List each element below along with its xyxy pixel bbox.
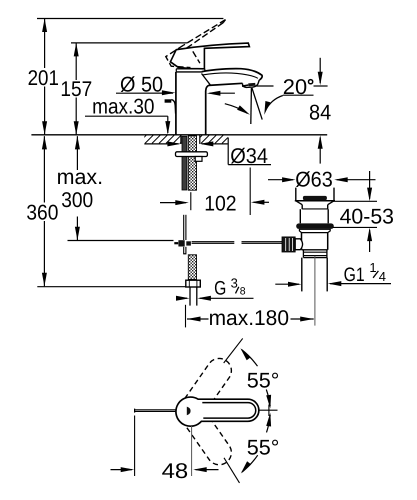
dimension max.180 line and arrows — [187, 318, 209, 320]
svg-text:8: 8 — [240, 285, 246, 297]
label G1 1/4 with underline — [330, 283, 391, 285]
water stream 20 degree slanted line — [252, 88, 262, 120]
water stream vertical line — [250, 88, 253, 124]
drain O-ring seal dark band — [296, 223, 334, 229]
svg-text:max.180: max.180 — [209, 306, 290, 330]
top view lever rotated up 55 dashed — [180, 354, 237, 420]
svg-text:Ø34: Ø34 — [230, 144, 268, 168]
mounting nut under deck — [176, 152, 208, 157]
knob connector piece — [295, 239, 302, 250]
deck hatching — [138, 135, 237, 143]
countertop deck bottom line with diameter 34 arrows — [144, 143, 178, 145]
dimension 102 arrows — [160, 202, 186, 204]
svg-text:157: 157 — [60, 77, 92, 101]
drain upper body — [299, 209, 301, 223]
dimension 157 vertical line — [75, 43, 77, 80]
extension line at spout outlet for 84 — [256, 85, 274, 87]
svg-text:48: 48 — [162, 459, 189, 483]
spout inner contour line — [203, 73, 258, 78]
cartridge ring under lever — [176, 68, 205, 70]
dimension 360 vertical line — [43, 136, 45, 202]
svg-text:G: G — [214, 277, 226, 299]
dimension arrows for diameter 50 — [116, 92, 173, 94]
pop-up rod knurled knob — [282, 237, 295, 252]
supply pipe dark tube — [182, 136, 187, 190]
spout top edge — [202, 69, 262, 80]
drain neck — [301, 205, 303, 210]
svg-text:1: 1 — [369, 260, 376, 275]
drain coupling ring — [302, 250, 304, 258]
55 degree axis line upper — [224, 338, 243, 363]
G 1 1/4 thread arrows — [275, 283, 299, 285]
svg-text:84: 84 — [309, 100, 331, 124]
threaded shank braided section upper — [188, 136, 196, 190]
dimension 102 extension lines — [190, 192, 192, 210]
upper 55 degree arc with arrows — [242, 350, 258, 367]
svg-text:max.: max. — [57, 165, 103, 189]
svg-text:55°: 55° — [247, 435, 280, 459]
G 3/8 connection nut — [186, 280, 201, 287]
top view lever outline — [176, 397, 259, 426]
pop-up rod clamp block — [178, 240, 184, 246]
shank hole edges in deck — [180, 135, 182, 144]
svg-text:55°: 55° — [247, 368, 280, 392]
lever handle raised dashed — [166, 20, 226, 68]
svg-text:Ø63: Ø63 — [295, 167, 333, 191]
drain centerline — [314, 256, 316, 326]
drain main body — [301, 233, 303, 250]
faucet body and spout outline — [175, 72, 177, 135]
svg-text:max.30: max.30 — [92, 94, 155, 118]
svg-text:4: 4 — [379, 269, 386, 284]
top view lever inner contour — [202, 403, 255, 419]
dimension 40-53 extension lines — [333, 200, 377, 202]
horizontal axis line right of lever — [259, 409, 278, 411]
extension line for 201 (top of raised lever) — [37, 18, 223, 20]
drain flange sides and extension lines for diameter 63 — [295, 188, 297, 201]
braided hose lower section — [188, 255, 196, 280]
extension line left for max.180 — [185, 305, 187, 328]
drain tailpipe G1 1/4 — [301, 258, 303, 292]
dimension 48 arrows — [111, 469, 133, 471]
svg-text:201: 201 — [28, 66, 59, 90]
55 degree axis line lower — [224, 458, 240, 483]
dimension 84 vertical line with arrows — [319, 58, 321, 83]
drain collar below seal — [299, 229, 330, 232]
20 degree right arc arrow — [266, 96, 283, 111]
dimension 40-53 arrows — [369, 171, 371, 199]
label diameter 34 with leader — [227, 138, 229, 165]
20 degree left arc arrow — [225, 104, 247, 114]
extension line bottom of 360 — [37, 286, 186, 288]
svg-text:360: 360 — [26, 200, 58, 224]
svg-text:3: 3 — [231, 275, 238, 290]
countertop deck top line — [31, 134, 327, 136]
drain flange bottom line — [295, 200, 335, 202]
pop-up rod vertical — [183, 215, 185, 240]
top view cartridge dark mark — [187, 407, 191, 416]
lever handle solid — [170, 43, 249, 69]
label G 3/8 with underline — [200, 297, 254, 299]
spout-body crease line — [202, 74, 211, 86]
svg-text:G1: G1 — [344, 264, 365, 286]
G 3/8 thread arrows — [177, 297, 188, 299]
aerator dark outlet — [242, 85, 248, 86]
extension line for 157 (top of lever) — [71, 42, 188, 44]
dimension max.300 vertical line — [76, 136, 78, 170]
dimension 48 extension lines — [134, 416, 136, 477]
dimension 201 vertical line — [44, 19, 46, 69]
extension line bottom of max.300 — [68, 240, 174, 242]
drain plug cap dark band — [303, 196, 327, 200]
dimension arrows for diameter 63 — [268, 179, 293, 181]
lower 55 degree arc with arrows — [267, 415, 271, 433]
drain neck taper — [296, 201, 302, 205]
top view lever rotated down 55 dashed — [180, 403, 237, 469]
svg-text:300: 300 — [61, 188, 93, 212]
top view pop-up rod pointing left — [135, 409, 176, 411]
pop-up rod knob behind faucet — [165, 99, 172, 102]
svg-text:102: 102 — [204, 192, 236, 216]
supply tube end — [189, 287, 191, 306]
aerator outline — [242, 80, 259, 88]
horizontal pop-up rod to drain — [192, 241, 235, 243]
svg-text:40-53: 40-53 — [340, 204, 394, 228]
